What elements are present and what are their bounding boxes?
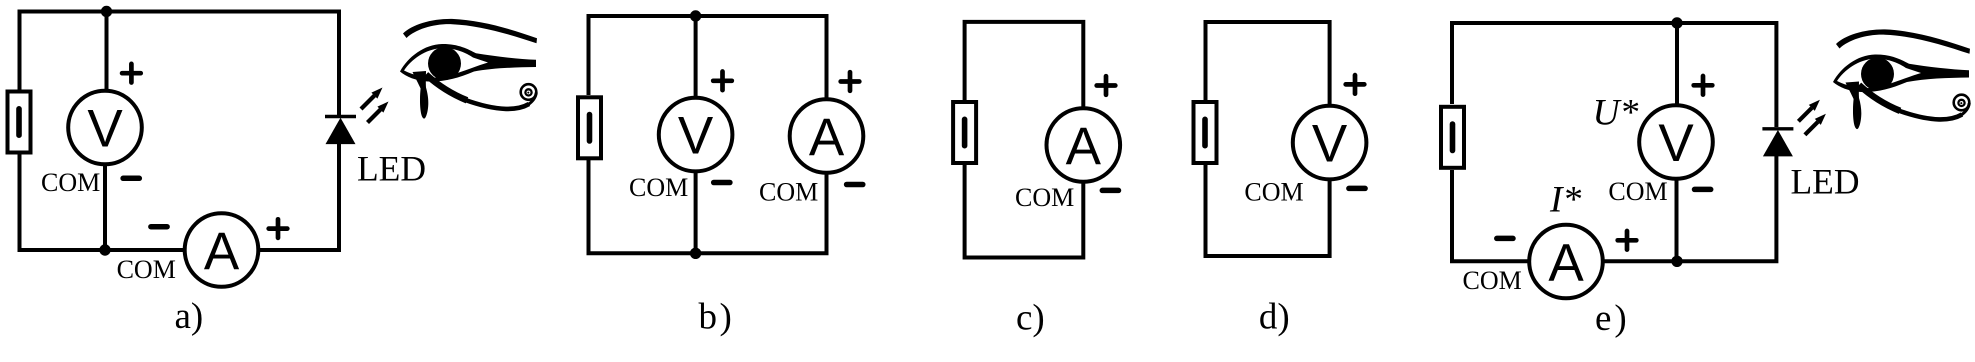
battery G1: [8, 92, 31, 153]
voltmeter V: [68, 91, 142, 165]
node top junction: [101, 6, 112, 17]
svg-text:c): c): [1016, 298, 1045, 339]
svg-text:COM: COM: [629, 173, 688, 202]
battery G5: [1441, 107, 1464, 168]
svg-text:V: V: [678, 106, 714, 165]
svg-text:COM: COM: [1244, 178, 1303, 207]
plus terminal V: [713, 72, 732, 91]
battery G2: [578, 97, 601, 158]
wire: [694, 16, 698, 99]
svg-text:LED: LED: [357, 149, 426, 189]
ammeter A: [790, 99, 864, 173]
minus terminal V: [1349, 187, 1365, 189]
ammeter A: [1047, 108, 1121, 182]
minus terminal V: [1695, 188, 1711, 190]
plus terminal A: [1618, 231, 1637, 250]
LED D2: [1762, 100, 1826, 157]
minus terminal V: [123, 177, 139, 179]
svg-text:V: V: [1312, 114, 1348, 173]
ammeter A: [185, 213, 259, 287]
svg-text:A: A: [809, 108, 845, 167]
svg-text:COM: COM: [1015, 183, 1074, 212]
plus terminal V: [1694, 76, 1713, 95]
minus terminal A: [1102, 189, 1118, 191]
plus terminal A: [1097, 76, 1116, 95]
wire: [105, 12, 109, 93]
minus terminal A: [151, 226, 167, 228]
eye symbol: [400, 19, 537, 119]
LED D1: [325, 88, 389, 145]
wire: [20, 12, 340, 116]
voltmeter V: [659, 98, 733, 172]
svg-text:V: V: [87, 99, 123, 158]
svg-text:d): d): [1259, 297, 1290, 338]
svg-text:U*: U*: [1593, 92, 1639, 133]
wire: [1452, 23, 1776, 127]
svg-text:COM: COM: [1608, 177, 1667, 206]
wire: [1675, 178, 1679, 261]
wire: [694, 170, 698, 253]
svg-text:e): e): [1595, 298, 1630, 339]
svg-text:b): b): [699, 297, 735, 338]
svg-text:A: A: [1548, 233, 1584, 292]
minus terminal A: [1497, 237, 1513, 239]
svg-text:LED: LED: [1791, 162, 1860, 202]
svg-text:A: A: [1066, 117, 1102, 176]
wire: [1675, 23, 1679, 106]
wire: [103, 163, 107, 250]
svg-text:COM: COM: [41, 168, 100, 197]
plus terminal A: [841, 72, 860, 91]
ammeter A: [1529, 225, 1603, 299]
eye symbol: [1833, 29, 1970, 129]
svg-text:COM: COM: [1463, 266, 1522, 295]
node bottom junction: [1671, 256, 1682, 267]
voltmeter V: [1639, 105, 1713, 179]
plus terminal V: [1346, 75, 1365, 94]
node bottom junction: [99, 244, 110, 255]
plus terminal V: [122, 64, 141, 83]
wire: [589, 160, 827, 253]
wire: [965, 22, 1084, 109]
voltmeter V: [1293, 106, 1367, 180]
minus terminal A: [847, 184, 863, 186]
node bottom junction: [690, 248, 701, 259]
svg-text:COM: COM: [759, 178, 818, 207]
svg-text:a): a): [175, 296, 204, 337]
plus terminal A: [269, 219, 288, 238]
svg-text:COM: COM: [117, 255, 176, 284]
node top junction: [690, 10, 701, 21]
wire: [1603, 155, 1777, 261]
wire: [1452, 170, 1530, 261]
wire: [20, 154, 186, 250]
wire: [1206, 22, 1330, 106]
wire: [258, 143, 339, 250]
wire: [589, 16, 827, 100]
svg-text:V: V: [1658, 114, 1694, 173]
battery G3: [953, 102, 976, 163]
node top junction: [1671, 17, 1682, 28]
wire: [965, 164, 1084, 258]
svg-text:I*: I*: [1549, 179, 1581, 220]
wire: [1206, 164, 1330, 256]
minus terminal V: [714, 182, 730, 184]
svg-text:A: A: [204, 222, 240, 281]
battery G4: [1194, 102, 1217, 163]
